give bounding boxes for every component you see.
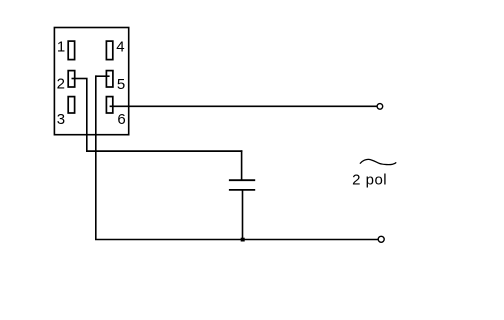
svg-text:1: 1 bbox=[57, 39, 65, 56]
svg-text:3: 3 bbox=[57, 111, 65, 128]
wire pin6 to terminal bbox=[110, 105, 378, 107]
wire pin5 stub bbox=[96, 75, 110, 77]
junction dot bbox=[241, 238, 245, 242]
terminal circle top bbox=[377, 104, 383, 110]
svg-text:5: 5 bbox=[117, 76, 125, 93]
pin 2 bbox=[68, 71, 75, 87]
wire bottom horizontal bbox=[95, 239, 378, 241]
svg-text:2 pol: 2 pol bbox=[352, 172, 387, 189]
capacitor C1 bottom plate bbox=[229, 189, 255, 191]
svg-text:4: 4 bbox=[116, 39, 124, 56]
terminal circle bottom bbox=[378, 236, 384, 242]
wire pin2 vertical drop bbox=[86, 78, 88, 151]
wire capacitor bottom lead bbox=[242, 190, 244, 240]
wire horizontal to capacitor bbox=[86, 150, 242, 152]
pin 3 bbox=[68, 97, 74, 113]
svg-text:2: 2 bbox=[57, 76, 65, 93]
pin 5 bbox=[106, 71, 113, 87]
wire pin5 vertical drop bbox=[95, 75, 97, 239]
pin 4 bbox=[106, 41, 112, 60]
wire pin2 stub bbox=[72, 78, 87, 80]
capacitor C1 top plate bbox=[229, 179, 255, 181]
pin 1 bbox=[68, 41, 74, 60]
pin 6 bbox=[106, 97, 112, 113]
svg-text:6: 6 bbox=[117, 111, 125, 128]
wire capacitor top lead bbox=[241, 150, 243, 180]
AC tilde symbol bbox=[360, 159, 396, 164]
connector J1 outline bbox=[54, 28, 128, 135]
